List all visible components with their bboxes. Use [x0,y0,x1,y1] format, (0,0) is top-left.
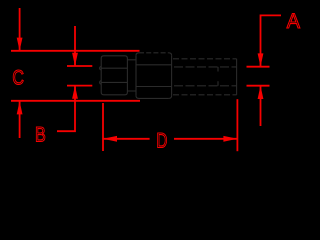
dimension B top stem [74,26,76,66]
dimension C bottom extension line [11,100,140,102]
dimension B bottom stem + leader [57,86,75,132]
collar between nuts [127,60,136,91]
hex nut 2 corners [136,53,172,99]
svg-text:C: C [12,65,24,89]
arrow C up [17,101,23,114]
dimension A bottom stem [260,86,262,126]
hex nut 2 flats [136,65,172,87]
arrow B up [72,86,78,99]
hex nut 2 bottom edge [139,97,169,99]
dimension B bottom tick [67,85,92,87]
dimension A leader [261,15,282,66]
hex nut 2 left face [135,55,137,96]
svg-text:B: B [35,123,46,147]
dimension A top tick [247,66,270,68]
arrow A down [258,53,264,66]
hex nut 1 flats [101,68,127,82]
hex nut 1 left face corner arcs [100,67,102,85]
inner bore hidden line bottom [174,85,237,87]
hex nut 2 top edge (dashed) [139,52,169,54]
threaded nose bottom edge [173,94,237,96]
arrow D right [223,136,237,142]
threaded nose top edge [173,58,237,60]
connector body outline [100,53,237,99]
inner bore hidden line top [174,66,237,68]
dimension D left extension line [102,103,104,151]
arrow A up [258,86,264,99]
dimension C top stem [19,8,21,51]
hex nut 1 outline [101,56,127,95]
hex nut 2 right face [171,55,173,96]
arrow C down [17,38,23,51]
dimension C bottom stem [19,101,21,138]
dimension D right extension line [236,99,238,151]
svg-text:A: A [287,9,301,33]
inner step [217,67,219,86]
arrow B down [72,53,78,66]
dimension B top tick [67,65,92,67]
svg-text:D: D [156,128,167,152]
dimension D line right segment [174,138,237,140]
dimension C top extension line [11,50,140,52]
dimension D line left segment [103,138,150,140]
arrow D left [103,136,117,142]
nose right end face [236,59,238,95]
dimension A bottom tick [247,85,270,87]
